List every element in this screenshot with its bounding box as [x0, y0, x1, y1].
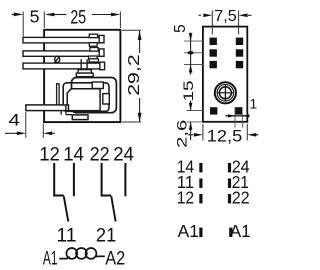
LEFT SIDE-VIEW DRAWING [5, 7, 143, 138]
wire pin 14 [73, 163, 75, 196]
svg-text:12: 12 [39, 144, 60, 166]
socket body outline [44, 30, 120, 122]
dim 7,5: left extension line [211, 11, 213, 35]
pin square row3 left [210, 61, 217, 68]
bracket below flange [61, 111, 72, 115]
coil right wire [96, 255, 105, 258]
dim 5: left arrowhead [14, 13, 23, 17]
svg-text:5: 5 [172, 24, 189, 33]
dim 7,5: right extension line [238, 11, 240, 35]
left chain dim line lower segment [190, 101, 192, 111]
svg-text:1: 1 [249, 97, 257, 113]
RIGHT BOTTOM-VIEW DRAWING [172, 8, 258, 148]
dim 25: right extension line [119, 12, 121, 29]
pin square row3 right [236, 61, 243, 68]
left chain dim line top segment [190, 33, 192, 75]
svg-text:4: 4 [9, 111, 21, 130]
bar A1 left [199, 228, 202, 237]
svg-text:7,5: 7,5 [214, 8, 236, 25]
svg-text:15: 15 [181, 80, 197, 101]
left chain: row leaders [184, 40, 203, 42]
BOTTOM-RIGHT PIN TABLE [177, 156, 251, 241]
pin square bottom left [210, 107, 217, 114]
diameter symbol [55, 56, 60, 62]
dim 7,5: left tail + arrowhead pointing right [199, 14, 202, 16]
dim 25: right arrowhead pointing right [111, 13, 120, 17]
pin bar1 end cap [99, 35, 104, 42]
dim 12,5: right extension [246, 124, 248, 141]
dim 29,2: bottom arrowhead pointing down [138, 113, 142, 122]
svg-text:A2: A2 [105, 248, 125, 270]
dim 29,2: dim line lower segment [139, 98, 141, 122]
svg-text:29,2: 29,2 [126, 54, 143, 96]
svg-text:A1: A1 [178, 221, 199, 241]
bar 24 [228, 163, 231, 172]
flange end cap line [65, 105, 67, 111]
terminal pin rect right of coil block [103, 94, 110, 104]
svg-text:A1: A1 [43, 248, 58, 270]
svg-text:2,6: 2,6 [174, 120, 190, 148]
pin square bottom right [235, 107, 242, 114]
dim 1: line with arrowheads [226, 115, 248, 117]
mounting hole crosshair [217, 85, 233, 101]
wire pin 24 [124, 163, 126, 196]
pin square row1 left [210, 38, 217, 45]
dim 5: left arrow tail [12, 13, 15, 15]
tab below bar1 [89, 43, 97, 47]
pin bar2 end cap [99, 49, 104, 56]
mounting hole inner ring [219, 87, 231, 99]
dim 4: left tail + arrowhead pointing right [5, 132, 18, 134]
pin bar3 end cap [100, 62, 105, 69]
stem (center post crossing pin bar 3) [81, 59, 88, 70]
filled dot tick at row2 [188, 51, 194, 54]
wire pin 12 with L-foot [54, 163, 64, 196]
bar 14 [199, 163, 202, 172]
relay outline R1 (outer rounded case) [72, 78, 117, 113]
tab above bar2 [90, 48, 98, 52]
socket body rectangle [203, 27, 247, 122]
arrowhead up at bottom edge [189, 122, 193, 130]
coil left wire [59, 257, 69, 259]
dim 29,2: top arrowhead pointing up [138, 31, 142, 40]
left chain: bottom edge extension [187, 121, 203, 123]
pin square row1 right [236, 38, 243, 45]
svg-text:14: 14 [63, 144, 84, 166]
mounting hole middle ring [217, 85, 234, 102]
svg-text:22: 22 [232, 188, 250, 208]
BOTTOM-LEFT CONTACT SCHEMATIC [39, 144, 134, 270]
svg-text:21: 21 [96, 224, 116, 246]
svg-text:24: 24 [113, 144, 134, 166]
svg-text:22: 22 [90, 144, 110, 166]
bar 11 [199, 179, 202, 188]
pin square row2 left [210, 49, 217, 56]
svg-text:25: 25 [70, 8, 86, 29]
dim 12,5: left extension [202, 124, 204, 141]
dim 5: left extension line [22, 12, 24, 37]
pin bar 3 [23, 63, 101, 69]
arrowhead up at row3 [189, 65, 193, 73]
coil loop 3 [86, 248, 97, 259]
svg-text:12: 12 [177, 188, 195, 208]
svg-text:11: 11 [56, 224, 76, 246]
arrowhead down at row1 [189, 33, 193, 41]
coil block C with chamfered corner [67, 89, 100, 111]
dim 1: extension lines from bottom-right pin [234, 107, 236, 127]
dim 29,2: top extension line [122, 29, 141, 31]
left chain dim line below bottom row [190, 122, 192, 140]
stem vertical lines crossing bar3 [81, 59, 87, 70]
tab above bar1 [89, 34, 97, 37]
dim 25: left arrowhead pointing left [45, 13, 54, 17]
dim 7,5: right tail + arrowhead pointing left [248, 14, 252, 16]
dim 4: right tail + arrowhead pointing left [43, 132, 55, 134]
dim 29,2: dim line upper segment [139, 31, 141, 53]
dim 4: right extension line [42, 124, 44, 138]
dim 29,2: bottom extension line [122, 121, 141, 123]
bar 21 [228, 179, 231, 188]
svg-text:5: 5 [30, 7, 40, 27]
contact arm to 11 [64, 196, 69, 221]
dim 25: left line segment [54, 14, 67, 16]
svg-text:12,5: 12,5 [207, 126, 242, 145]
dim 25: right line segment [92, 14, 112, 16]
dim 5: right extension line (body edge) [43, 12, 45, 29]
arrowhead down at bottom pin row [189, 103, 193, 111]
svg-text:A1: A1 [230, 221, 251, 241]
wide tab above bar3 [89, 59, 98, 62]
cap rect on coil block [92, 82, 103, 89]
bar 22 [228, 194, 231, 203]
bottom foot rect [72, 115, 88, 120]
pin bar 2 [23, 51, 101, 56]
dim 12,5: right tail + arrowhead pointing left [256, 134, 259, 136]
dim 12,5: left tail + arrowhead pointing right [188, 134, 194, 136]
left bracket above flange [57, 84, 60, 105]
relay outline R2 (inner rounded case) [63, 83, 109, 112]
mounting flange bar [26, 105, 69, 111]
bar 12 [199, 194, 202, 203]
pedestal step 1 [78, 70, 91, 74]
contact arm to 21 [111, 196, 115, 221]
coil loop 1 [66, 248, 77, 259]
mounting hole outer ring [215, 82, 236, 103]
wire pin 22 with L-foot [102, 163, 112, 196]
pin bar 1 [23, 37, 101, 43]
coil loop 2 [76, 248, 87, 259]
pedestal step 2 [76, 73, 93, 77]
pin square row2 right [236, 49, 243, 56]
tab below bar2 [89, 56, 98, 59]
bar A1 right [229, 228, 232, 237]
dim 4: left extension line [25, 112, 27, 138]
